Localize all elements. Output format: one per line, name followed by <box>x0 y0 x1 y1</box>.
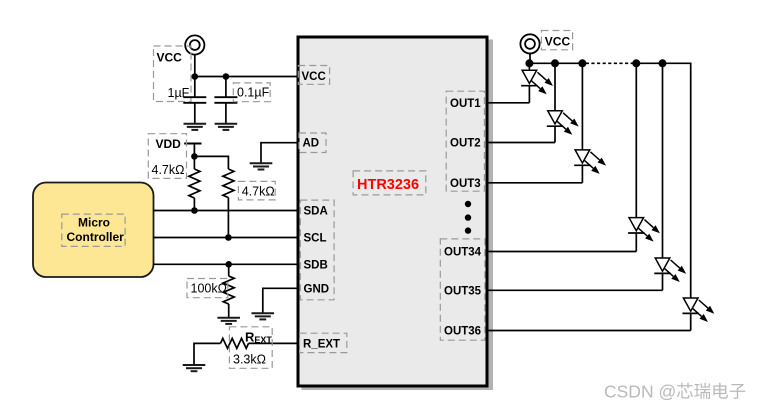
wire OUT35 <box>488 289 663 291</box>
node junction VDD <box>191 153 198 160</box>
wire VCC terminal down <box>194 54 196 76</box>
node junction SDB/R3 <box>225 261 232 268</box>
svg-text:VDD: VDD <box>156 137 182 151</box>
resistor R3 100k <box>223 264 234 317</box>
wire GND to ground <box>263 288 297 313</box>
label box R_EXT 3.3k <box>229 327 272 369</box>
power symbol VDD <box>184 144 201 157</box>
wire SCL <box>154 237 298 239</box>
IC label HTR3236 <box>353 171 426 195</box>
pin label VCC (left) <box>298 66 329 85</box>
ground GND pin <box>251 313 274 319</box>
LED D3 <box>574 63 606 183</box>
LED D1 <box>521 63 553 103</box>
wire OUT3 <box>488 182 582 184</box>
svg-text:R_EXT: R_EXT <box>303 338 340 350</box>
label box 0.1uF <box>233 83 270 102</box>
wire LED bus dashed <box>586 62 633 64</box>
label box 100k <box>187 279 228 298</box>
wire LED bus solid left <box>529 62 585 64</box>
terminal VCC (top-left) <box>185 35 204 54</box>
label box VCC right <box>541 31 572 50</box>
svg-text:SDB: SDB <box>304 259 328 271</box>
ground below C1 <box>184 124 207 130</box>
node bus junction 1 <box>525 59 533 67</box>
svg-text:VCC: VCC <box>157 51 183 65</box>
LED D2 <box>547 63 579 142</box>
svg-text:SDA: SDA <box>304 206 328 218</box>
wire VDD branch to R2 <box>194 156 228 169</box>
svg-text:OUT34: OUT34 <box>444 247 482 259</box>
ellipsis dots on IC <box>465 201 471 234</box>
label box VDD / 4.7k <box>148 134 186 179</box>
node junction SDA/R1 <box>191 207 198 214</box>
wire SDA <box>154 210 298 212</box>
node bus junction 4 <box>632 59 640 67</box>
LED D36 <box>683 298 715 331</box>
IC U1 HTR3236 body <box>298 37 487 386</box>
pin label group OUT1 OUT2 OUT3 <box>446 91 484 191</box>
svg-text:0.1µF: 0.1µF <box>237 86 270 100</box>
capacitor C2 0.1uF <box>214 77 237 124</box>
svg-text:OUT3: OUT3 <box>450 178 481 190</box>
svg-text:OUT36: OUT36 <box>444 326 481 338</box>
label box VCC / 1uF <box>154 46 192 102</box>
node junction C2 <box>223 73 230 80</box>
svg-text:VCC: VCC <box>545 34 571 48</box>
svg-text:OUT35: OUT35 <box>444 285 482 297</box>
node bus junction 2 <box>551 59 559 67</box>
wire ground to R_EXT <box>194 343 221 365</box>
pin label AD <box>299 133 326 153</box>
wire VCC rail to pin VCC <box>195 76 297 78</box>
svg-text:Controller: Controller <box>67 230 125 244</box>
svg-text:REXT: REXT <box>245 330 272 346</box>
IC U1 body shadow <box>302 40 494 391</box>
node junction SCL/R2 <box>225 234 232 241</box>
pin label R_EXT <box>300 333 347 352</box>
label box 4.7k R2 <box>238 181 275 200</box>
ground R_EXT <box>183 365 206 371</box>
node bus junction 5 <box>659 59 667 67</box>
svg-text:100kΩ: 100kΩ <box>191 282 227 296</box>
svg-text:VCC: VCC <box>302 71 326 83</box>
svg-text:4.7kΩ: 4.7kΩ <box>242 185 275 199</box>
pin label group SDA SCL SDB GND <box>300 200 334 300</box>
wire OUT1 <box>488 102 529 104</box>
svg-text:HTR3236: HTR3236 <box>357 177 419 193</box>
watermark CSDN <box>604 382 745 402</box>
svg-text:SCL: SCL <box>304 233 327 245</box>
LED D34 <box>628 63 660 251</box>
wire LED bus solid right with corner down <box>633 63 691 298</box>
svg-text:3.3kΩ: 3.3kΩ <box>233 352 266 366</box>
LED D35 <box>654 63 686 290</box>
svg-text:GND: GND <box>304 283 330 295</box>
svg-text:OUT1: OUT1 <box>450 98 481 110</box>
svg-text:Micro: Micro <box>78 216 110 230</box>
svg-text:4.7kΩ: 4.7kΩ <box>152 163 185 177</box>
wire SDB <box>154 263 298 265</box>
pin label group OUT34 OUT35 OUT36 <box>440 239 485 340</box>
wire VCC terminal to bus <box>529 53 531 63</box>
resistor R_EXT 3.3k <box>221 338 298 348</box>
capacitor C1 1uF <box>183 77 206 124</box>
wire OUT36 <box>488 330 691 332</box>
resistor R1 4.7k <box>189 156 200 210</box>
ground below R3 <box>217 318 240 324</box>
svg-text:OUT2: OUT2 <box>450 138 481 150</box>
resistor R2 4.7k <box>223 169 234 238</box>
terminal VCC (top-right) <box>520 34 539 53</box>
wire AD to ground <box>261 143 297 164</box>
ground AD <box>250 163 273 169</box>
svg-text:CSDN @: CSDN @ <box>604 382 676 402</box>
micro controller block <box>33 183 154 278</box>
wire OUT34 <box>488 251 636 253</box>
svg-text:AD: AD <box>303 138 320 150</box>
ground below C2 <box>215 124 238 130</box>
wire OUT2 <box>488 142 555 144</box>
node junction C1 <box>192 73 199 80</box>
node bus junction 3 <box>578 59 586 67</box>
